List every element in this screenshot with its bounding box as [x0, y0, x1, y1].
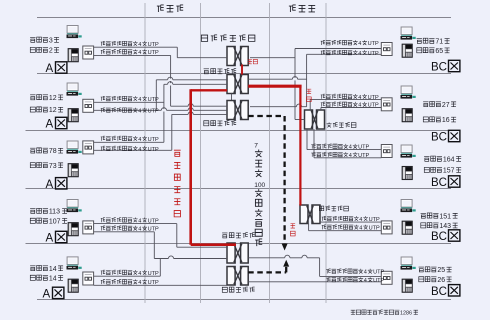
node outlet plate BC5: [381, 271, 392, 284]
node outlet plate A5: [83, 272, 94, 285]
computer PC-A3: [67, 141, 82, 154]
node label 语音配线架 (upper): [204, 121, 236, 126]
svg-text:A: A: [46, 233, 54, 245]
node label 数据点 12 个 (A2): [30, 95, 63, 102]
wire 100-pair into U7: [248, 260, 289, 273]
computer PC-BC4: [401, 200, 416, 213]
svg-text:UTP: UTP: [368, 41, 379, 47]
node label 数据点 71 个 (BC1): [417, 38, 450, 45]
node zone label A4: [46, 231, 67, 244]
svg-text:4: 4: [359, 217, 362, 223]
wire 100-pair cable from U3: [248, 115, 284, 117]
svg-text:4: 4: [138, 280, 141, 286]
svg-text:78: 78: [49, 148, 57, 155]
patch panel U6 (lower data frame): [227, 243, 248, 263]
node label 7根三类100对大对数电缆: [254, 142, 265, 246]
wire U2-U3 link: [231, 94, 233, 101]
node cable label 水平线缆超五类4对UTP (A3-1): [101, 136, 159, 143]
svg-text:26: 26: [437, 277, 445, 284]
svg-text:12: 12: [49, 95, 57, 102]
computer PC-BC5: [401, 257, 416, 270]
node label 语音点 107 个 (A4): [30, 218, 67, 225]
wire A3 voice line: [94, 149, 172, 151]
patch panel U5 (8F box): [300, 205, 320, 224]
svg-text:UTP: UTP: [148, 271, 159, 277]
wire A2 data run: [94, 82, 227, 143]
node cable label 水平线缆超五类4对UTP (BC1-2): [321, 50, 379, 57]
svg-text:BC: BC: [431, 286, 447, 298]
telephone T-A2: [68, 109, 78, 122]
svg-text:16: 16: [442, 117, 450, 124]
node cable label 水平线缆超五类4对UTP (BC3-1): [311, 144, 369, 151]
node cable label 水平线缆超五类4对UTP (A2-1): [101, 96, 159, 103]
svg-text:2: 2: [49, 48, 53, 55]
node outlet plate BC4: [381, 221, 392, 234]
patch panel U7 (lower voice frame): [227, 267, 248, 286]
svg-text:UTP: UTP: [148, 97, 159, 103]
node cable label 水平线缆超五类4对UTP (A4-2): [101, 226, 159, 233]
wire A2 voice run: [94, 108, 227, 112]
node cable label 水平线缆超五类4对UTP (BC4-1): [322, 216, 380, 223]
node zone label BC2: [431, 130, 460, 143]
node label 数据点 164 个 (BC3): [424, 156, 461, 163]
svg-text:4: 4: [138, 227, 141, 233]
svg-text:UTP: UTP: [368, 103, 379, 109]
svg-text:65: 65: [435, 48, 443, 55]
node label 数据点 25 个 (BC5): [419, 267, 452, 274]
patch panel U2 (data frame): [227, 75, 248, 94]
node label 光纤 (U1-U2): [248, 60, 258, 64]
svg-text:71: 71: [435, 39, 443, 46]
wire BC5 data line: [320, 275, 382, 277]
computer PC-BC3: [401, 145, 416, 158]
wire 100-pair vertical run: [282, 116, 288, 251]
node shaft label 线井二: [289, 5, 315, 12]
node caption 共计综合布线信息点 1286 个: [351, 310, 418, 317]
svg-text:UTP: UTP: [148, 147, 159, 153]
wire riser shaft line 3: [269, 3, 271, 303]
telephone T-A3: [68, 164, 78, 177]
svg-text:UTP: UTP: [368, 95, 379, 101]
wire riser shaft line 4: [325, 3, 327, 303]
node label 数据点 3 个 (A1): [30, 37, 59, 44]
wire BC5 voice line: [248, 281, 381, 283]
svg-text:4: 4: [364, 278, 367, 284]
svg-text:UTP: UTP: [358, 153, 369, 159]
wire row separator 1: [37, 17, 451, 19]
svg-text:164: 164: [443, 156, 455, 163]
svg-text:4: 4: [138, 271, 141, 277]
node label 九楼配线箱: [327, 122, 356, 127]
telephone T-BC3: [402, 166, 412, 179]
node label 语音点 26 个 (BC5): [419, 277, 452, 284]
node outlet plate A1: [83, 46, 94, 59]
patch panel U4 (9F box): [305, 110, 325, 129]
node label 语音点 157 个 (BC3): [424, 167, 461, 174]
wire row separator 4: [26, 188, 452, 190]
svg-text:UTP: UTP: [369, 217, 380, 223]
node label 语音点 143 个 (BC4): [421, 223, 458, 230]
svg-text:4: 4: [138, 218, 141, 224]
wire row separator 5: [26, 243, 452, 245]
wire fiber U2 right feed: [248, 85, 301, 205]
node label 数据点 78 个 (A3): [30, 148, 63, 155]
svg-text:UTP: UTP: [148, 280, 159, 286]
node zone label A5: [43, 287, 64, 300]
svg-text:UTP: UTP: [148, 109, 159, 115]
node label 数据点 151 个 (BC4): [421, 213, 458, 220]
telephone T-A4: [68, 223, 78, 236]
wire BC3 voice run: [314, 129, 381, 158]
svg-text:113: 113: [49, 209, 60, 216]
wire U6 right branch: [248, 255, 319, 276]
wire BC4 voice run: [309, 224, 382, 231]
telephone T-BC1: [402, 44, 412, 57]
computer PC-BC2: [401, 86, 416, 99]
computer PC-BC1: [401, 27, 416, 40]
svg-text:7: 7: [254, 142, 258, 149]
node cable label 水平线缆超五类4对UTP (A1-1): [101, 41, 159, 48]
svg-text:4: 4: [138, 147, 141, 153]
svg-text:14: 14: [49, 275, 57, 282]
node label 光纤 (lower right riser): [290, 224, 295, 236]
telephone T-A5: [68, 279, 78, 292]
node cable label 水平线缆超五类4对UTP (BC5-2): [326, 277, 384, 284]
node cable label 水平线缆超五类4对UTP (BC4-2): [322, 225, 380, 232]
node label 六芯多模光纤 (fiber riser): [174, 150, 181, 217]
wire row separator 2: [37, 73, 451, 75]
patch panel U3 (voice frame): [227, 101, 248, 120]
wire A1 data run: [94, 47, 227, 58]
wire A3 voice riser: [172, 112, 227, 150]
svg-text:151: 151: [439, 213, 451, 220]
node label 数据点 14 个 (A5): [30, 265, 63, 272]
telephone T-BC4: [402, 221, 412, 234]
wire BC3 data run: [307, 129, 381, 150]
wire A4 data run: [94, 224, 227, 248]
wire A4 voice run: [94, 232, 227, 260]
node zone label A1: [46, 62, 67, 75]
node cable label 水平线缆超五类4对UTP (BC5-1): [326, 269, 384, 276]
svg-text:4: 4: [358, 95, 361, 101]
wire A5 data run: [94, 258, 161, 276]
telephone T-A1: [68, 49, 78, 62]
svg-text:27: 27: [442, 102, 450, 109]
node label 光纤 (right riser): [307, 89, 312, 101]
node cable label 水平线缆超五类4对UTP (BC1-1): [321, 40, 379, 47]
svg-text:4: 4: [359, 226, 362, 232]
wire U3 right branch: [250, 104, 307, 108]
telephone T-BC5: [402, 279, 412, 292]
node label 语音点 12 个 (A2): [30, 107, 63, 114]
svg-text:BC: BC: [431, 231, 447, 243]
node cable label 水平线缆超五类4对UTP (A2-2): [101, 108, 159, 115]
node zone label BC3: [431, 176, 460, 189]
node cable label 水平线缆超五类4对UTP (BC3-2): [311, 152, 369, 159]
wire fiber U2 left feed: [191, 89, 236, 245]
svg-text:A: A: [43, 288, 51, 300]
node label 十一楼配线箱: [201, 35, 255, 42]
node cable label 水平线缆超五类4对UTP (BC2-2): [321, 102, 379, 109]
svg-text:12: 12: [49, 107, 57, 114]
svg-text:73: 73: [49, 163, 57, 170]
svg-text:BC: BC: [431, 62, 447, 74]
svg-text:4: 4: [138, 97, 141, 103]
node zone label A2: [46, 117, 67, 130]
computer PC-A5: [67, 257, 82, 270]
wire A1 voice into U3: [171, 104, 227, 108]
node outlet plate BC2: [381, 98, 392, 111]
svg-text:UTP: UTP: [148, 137, 159, 143]
wire BC2 voice run: [321, 108, 381, 111]
node shaft label 线井一: [157, 5, 183, 12]
svg-text:UTP: UTP: [373, 270, 384, 276]
node zone label BC5: [431, 285, 460, 298]
svg-text:UTP: UTP: [148, 227, 159, 233]
computer PC-A2: [67, 83, 82, 96]
node zone label A3: [46, 178, 67, 191]
node label 语音点 16 个 (BC2): [423, 117, 456, 124]
node label 语音点 14 个 (A5): [30, 275, 63, 282]
svg-text:4: 4: [138, 50, 141, 56]
svg-text:4: 4: [364, 270, 367, 276]
node cable label 水平线缆超五类4对UTP (A4-1): [101, 217, 159, 224]
wire fiber U1-U2 link: [241, 65, 243, 75]
svg-text:UTP: UTP: [368, 51, 379, 57]
node cable label 水平线缆超五类4对UTP (BC2-1): [321, 94, 379, 101]
svg-text:UTP: UTP: [148, 42, 159, 48]
svg-text:UTP: UTP: [369, 226, 380, 232]
node label 语音配线架 (lower): [222, 287, 254, 292]
svg-text:4: 4: [138, 137, 141, 143]
svg-text:157: 157: [443, 168, 455, 175]
node zone label BC1: [431, 60, 460, 73]
svg-text:4: 4: [138, 109, 141, 115]
svg-text:4: 4: [358, 41, 361, 47]
svg-text:14: 14: [49, 266, 57, 273]
node label 数据配线架 (lower): [222, 233, 255, 238]
svg-text:107: 107: [49, 218, 61, 225]
svg-text:4: 4: [138, 42, 141, 48]
svg-text:4: 4: [349, 145, 352, 151]
svg-text:A: A: [46, 179, 54, 191]
svg-text:BC: BC: [431, 132, 447, 144]
node cable label 水平线缆超五类4对UTP (A5-2): [101, 279, 159, 286]
wire BC2 data run: [310, 100, 381, 110]
node outlet plate A2: [83, 99, 94, 112]
node label 数据配线架 (upper): [204, 69, 237, 74]
node label 语音点 73 个 (A3): [30, 162, 63, 169]
svg-text:A: A: [46, 119, 54, 131]
node outlet plate A4: [83, 221, 94, 234]
node outlet plate BC3: [381, 145, 392, 158]
svg-text:1286: 1286: [400, 311, 412, 317]
computer PC-A1: [67, 26, 82, 39]
svg-text:100: 100: [254, 182, 265, 189]
wire row separator 3: [26, 130, 452, 132]
wire U2 right branch: [248, 77, 306, 81]
wire row separator 6: [37, 299, 451, 301]
node cable label 水平线缆超五类4对UTP (A5-1): [101, 270, 159, 277]
wire riser shaft line 2: [200, 3, 202, 303]
svg-text:3: 3: [49, 37, 53, 44]
node label 数据点 113 个 (A4): [30, 208, 67, 215]
wire U2 left branch: [156, 77, 227, 110]
node zone label BC4: [431, 230, 460, 243]
computer PC-A4: [67, 200, 82, 213]
node label 语音点 2 个 (A1): [30, 47, 59, 54]
wire BC1 data run: [250, 49, 381, 120]
wire riser shaft line 1: [144, 3, 146, 303]
svg-text:25: 25: [437, 267, 445, 274]
svg-text:UTP: UTP: [148, 50, 159, 56]
svg-text:BC: BC: [431, 177, 447, 189]
node outlet plate A3: [83, 141, 94, 154]
svg-text:UTP: UTP: [358, 145, 369, 151]
svg-text:4: 4: [358, 103, 361, 109]
node label 语音点 65 个 (BC1): [417, 48, 450, 55]
svg-text:UTP: UTP: [373, 278, 384, 284]
wire BC4 data run: [320, 221, 381, 223]
node outlet plate BC1: [381, 43, 392, 56]
wire A3 data line: [94, 141, 164, 143]
node label 数据点 27 个 (BC2): [423, 101, 456, 108]
wire A5 voice line: [94, 284, 227, 286]
patch panel U1 (11F main distribution): [227, 47, 248, 66]
svg-text:4: 4: [358, 51, 361, 57]
svg-text:A: A: [46, 63, 54, 75]
telephone T-BC2: [402, 109, 412, 122]
svg-text:UTP: UTP: [148, 218, 159, 224]
wire BC1 voice run: [307, 54, 382, 106]
node label 八楼配线箱: [319, 206, 348, 211]
svg-text:4: 4: [349, 153, 352, 159]
node cable label 水平线缆超五类4对UTP (A3-2): [101, 146, 159, 153]
node cable label 水平线缆超五类4对UTP (A1-2): [101, 49, 159, 56]
wire A1 voice run: [94, 55, 171, 106]
svg-text:143: 143: [439, 223, 451, 230]
